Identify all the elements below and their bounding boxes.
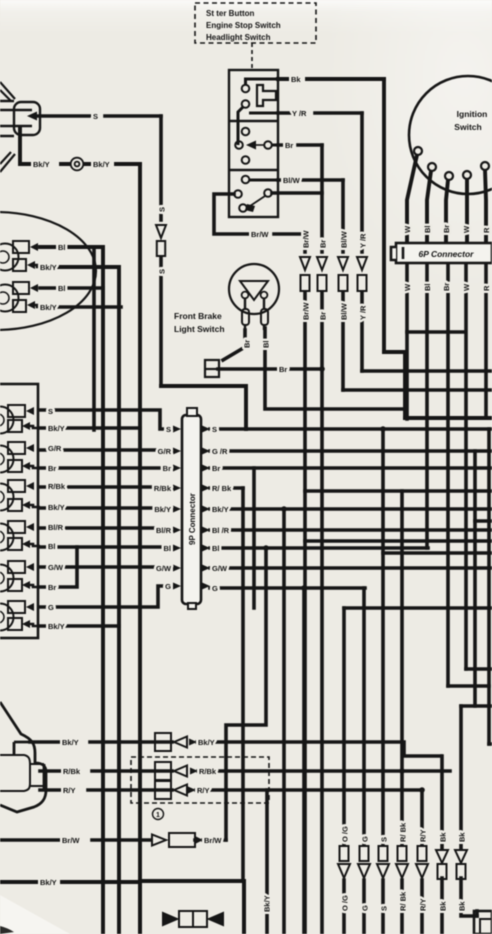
svg-text:G: G: [361, 836, 370, 842]
wire switch Br out: [278, 143, 322, 147]
junction dot G row: [301, 585, 307, 591]
bottom bullet Bk x463 (flipped): [455, 850, 467, 879]
wire Br bus x254 jog: [252, 468, 256, 608]
wire bottom box right edge: [242, 881, 246, 934]
wire Y/R bus x362: [360, 113, 364, 371]
bottom bullet G x364: [358, 846, 370, 878]
wire bottom box left edge: [138, 881, 142, 934]
svg-text:R/ Bk: R/ Bk: [212, 484, 232, 493]
wire G bus x304: [302, 588, 306, 934]
wire row y541 right: [305, 539, 492, 543]
meter bulb 2: [0, 442, 40, 473]
wire Br row right: [210, 466, 492, 470]
svg-text:Y /R: Y /R: [359, 305, 368, 320]
wire S headlight horizontal: [33, 114, 161, 118]
wire bottom right box feed: [475, 911, 479, 916]
svg-text:Bk/Y: Bk/Y: [33, 160, 50, 169]
wire switch Br/W out left: [214, 194, 305, 234]
svg-text:Br: Br: [212, 464, 220, 473]
svg-text:W: W: [462, 283, 471, 291]
svg-text:G/R: G/R: [158, 447, 172, 456]
wire S headlight vertical bus: [159, 116, 163, 386]
circled 1: [153, 809, 164, 820]
wire O/G bus x344: [342, 608, 346, 934]
svg-text:R/ Bk: R/ Bk: [399, 891, 408, 911]
switch section2 arrow: [246, 141, 256, 150]
switch terminals section3: [234, 176, 278, 212]
wire FBLS box Br out: [218, 367, 322, 371]
svg-text:Bk/Y: Bk/Y: [48, 503, 65, 512]
bottom bullet R/Y x422: [416, 846, 428, 878]
tail lamp wire stubs: [14, 742, 48, 790]
tail lamp outline: [0, 702, 46, 812]
bullet Bl/W x343: [338, 257, 348, 291]
tail lamp bulb: [0, 755, 44, 791]
svg-text:Br/W: Br/W: [302, 302, 311, 320]
svg-text:G: G: [212, 584, 218, 593]
rotated labels bullets bottom: [302, 302, 368, 320]
svg-text:Bk/Y: Bk/Y: [40, 263, 57, 272]
svg-text:R/Y: R/Y: [197, 786, 210, 795]
wire 6P R down: [484, 263, 488, 418]
svg-text:Bk/Y: Bk/Y: [93, 160, 110, 169]
svg-text:Headlight Switch: Headlight Switch: [206, 33, 271, 42]
9P pins right arrows: [202, 426, 210, 590]
lamp row connector R/Bk: [155, 762, 187, 780]
wire row y669 to edge: [466, 667, 492, 671]
svg-text:Bl: Bl: [262, 341, 271, 349]
svg-text:Front Brake: Front Brake: [174, 311, 222, 321]
wire Bk bus x443: [440, 756, 444, 934]
meter box: [0, 384, 38, 638]
bullet Y/R x362: [357, 257, 367, 291]
wire 6P Br down: [446, 263, 450, 686]
wire Bk bus x384: [382, 79, 386, 352]
wire row y706 to edge: [461, 704, 492, 708]
lamp row connector Bk/Y (rect + triangle): [155, 733, 187, 751]
svg-text:Bk: Bk: [458, 901, 467, 911]
svg-text:R/ Bk: R/ Bk: [399, 822, 408, 842]
wire Bl row right: [210, 546, 428, 550]
svg-text:Bl/W: Bl/W: [340, 302, 349, 320]
svg-text:Br: Br: [279, 365, 287, 374]
wire meter G/R row: [40, 448, 166, 452]
bottom box inner connector: [163, 911, 223, 927]
svg-text:Engine Stop Switch: Engine Stop Switch: [206, 21, 281, 30]
svg-text:R/Bk: R/Bk: [48, 482, 66, 491]
svg-text:W: W: [462, 225, 471, 233]
junction dot R/Y bottom: [419, 787, 425, 793]
wire S bullet bus x383: [381, 429, 385, 934]
svg-text:G/W: G/W: [212, 564, 228, 573]
ring connector (Bk/Y): [71, 158, 84, 171]
svg-text:Br: Br: [319, 240, 328, 248]
svg-text:Bl: Bl: [164, 544, 172, 553]
rotated labels below 6P: [403, 283, 491, 291]
wire Bk bus x405: [403, 352, 407, 418]
svg-text:Br: Br: [48, 464, 56, 473]
signal bulb 1: [0, 241, 40, 271]
wire Bl/W row y390 right: [343, 388, 492, 392]
svg-text:Y /R: Y /R: [292, 109, 307, 118]
headlight bulb body: [0, 101, 40, 136]
wire R/Bk row right short: [210, 486, 243, 490]
svg-text:6P Connector: 6P Connector: [419, 249, 475, 259]
arrow Br/W row: [196, 837, 203, 844]
wire meter Bk/Y row3: [40, 624, 119, 628]
wire G/R bus x475: [473, 451, 477, 706]
junction dot S row: [380, 426, 386, 432]
svg-text:Bk/Y: Bk/Y: [154, 505, 171, 514]
rotated labels bottom bullets top: [341, 822, 467, 842]
bottom left corner mark: [0, 926, 14, 934]
wire Br/W bus x305: [303, 234, 307, 934]
wire Bk/Y row right: [210, 507, 492, 511]
wire Y/R row y371 right: [362, 369, 492, 373]
svg-text:Bk: Bk: [439, 901, 448, 911]
front brake light switch circle: [229, 264, 279, 314]
svg-text:Switch: Switch: [454, 122, 481, 132]
svg-text:O /G: O /G: [341, 895, 350, 911]
svg-text:G: G: [165, 582, 171, 591]
wire meter Bk/Y row2: [40, 506, 166, 510]
svg-text:W: W: [403, 225, 412, 233]
svg-text:R/Y: R/Y: [63, 786, 76, 795]
svg-text:Bk: Bk: [458, 832, 467, 842]
9P connector body: [182, 408, 201, 609]
wire Bk bus x489: [487, 429, 491, 744]
ignition switch circle: [409, 76, 492, 194]
tail lamp row labels: [40, 738, 222, 887]
wire FBLS Bl down: [265, 328, 405, 409]
svg-text:O /G: O /G: [341, 826, 350, 842]
switch section1 internal wire: [238, 107, 243, 145]
svg-text:Bl: Bl: [423, 284, 432, 292]
svg-text:Ignition: Ignition: [457, 109, 488, 119]
arrow R/Bk row: [190, 768, 198, 775]
junction dot R/Bk bottom: [399, 768, 405, 774]
junction dot Br row: [319, 366, 325, 372]
svg-text:S: S: [93, 112, 98, 121]
bullet Br/W x305: [300, 257, 310, 291]
wire Bk row y352: [384, 350, 405, 354]
diode dashed box: [131, 757, 269, 803]
svg-text:R/Bk: R/Bk: [63, 767, 81, 776]
rotated labels above 6P: [403, 225, 491, 233]
headlight housing outline: [0, 82, 15, 172]
wire R/Bk bus x243: [241, 488, 245, 881]
wire G/R row right: [210, 449, 492, 453]
svg-text:Bl: Bl: [423, 226, 432, 234]
wire meter Bk/Y row1: [40, 426, 140, 430]
wire R/Y bus x422: [420, 790, 424, 934]
wire Bk/Y bus x284: [282, 509, 286, 934]
bottom right box: [474, 911, 492, 934]
wire row y521 right: [475, 519, 492, 523]
bullet Br x322: [317, 257, 327, 291]
svg-text:R: R: [482, 227, 491, 233]
arrow Bk/Y row: [189, 739, 197, 746]
wire Bl lamp2 row: [40, 286, 103, 290]
wire meter Bl/R row: [40, 526, 166, 530]
svg-text:St ter Button: St ter Button: [206, 9, 255, 18]
svg-text:R: R: [482, 285, 491, 291]
housing ellipse (turn signals): [0, 212, 96, 330]
wire meter G row jog to 9P: [40, 586, 166, 607]
svg-text:S: S: [380, 906, 389, 911]
wire FBLS Br diagonal: [223, 330, 245, 360]
svg-text:Bk/Y: Bk/Y: [212, 505, 229, 514]
wire Bk/Y bus x119: [40, 267, 119, 934]
6P connector bar: [391, 243, 492, 263]
meter bulb 5: [0, 561, 40, 592]
svg-text:Bk/Y: Bk/Y: [62, 738, 79, 747]
wire G bus x364: [362, 588, 366, 934]
bottom bullet S x383: [377, 846, 389, 878]
svg-text:G /R: G /R: [212, 447, 228, 456]
wire Bk bus x463: [461, 706, 477, 916]
arrow R/Y row: [188, 787, 196, 794]
wire Bl bus x103: [40, 247, 103, 934]
svg-text:Bk: Bk: [439, 832, 448, 842]
wire Bl link x94: [92, 247, 96, 430]
wire lamp R/Y row y790: [40, 788, 422, 792]
svg-text:Bk/Y: Bk/Y: [48, 424, 65, 433]
svg-text:Bl/W: Bl/W: [340, 230, 349, 248]
wire switch Y/R out: [278, 111, 362, 115]
svg-text:Bl: Bl: [58, 243, 66, 252]
wire row y491 from Br/W bus: [305, 489, 492, 493]
svg-text:Bl: Bl: [212, 544, 220, 553]
bottom bullet Bk x443 (flipped): [436, 850, 448, 879]
meter bulb 6: [0, 601, 40, 631]
svg-text:S: S: [158, 207, 167, 212]
svg-text:R/Y: R/Y: [419, 829, 428, 842]
wire Bk/Y lamp2 row: [40, 305, 121, 309]
wire Bl bus x266: [226, 548, 266, 840]
wire Bl/R row right: [210, 528, 492, 532]
svg-text:W: W: [403, 283, 412, 291]
9P left labels: [154, 425, 172, 591]
svg-text:Bk: Bk: [291, 75, 301, 84]
svg-text:S: S: [212, 425, 217, 434]
svg-text:G/W: G/W: [156, 564, 172, 573]
svg-text:Br/W: Br/W: [62, 836, 80, 845]
svg-text:Bl/W: Bl/W: [283, 176, 301, 185]
ignition terminals: [414, 147, 489, 180]
svg-text:S: S: [380, 837, 389, 842]
wire G row right: [210, 586, 365, 590]
meter bulb 1: [0, 405, 40, 434]
svg-text:Br/W: Br/W: [204, 836, 222, 845]
svg-text:Bl/R: Bl/R: [156, 526, 172, 535]
rotated labels bottom bullets below: [341, 891, 467, 911]
wire switch Bk out: [278, 77, 384, 81]
svg-text:Bl /R: Bl /R: [212, 526, 230, 535]
switch terminals section1: [242, 79, 278, 108]
callout dashed box: [195, 3, 316, 68]
svg-text:Bl: Bl: [48, 542, 56, 551]
S inline bullet on x161: [156, 225, 166, 256]
wire Bl/W bus x343: [341, 180, 345, 390]
svg-text:Bk/Y: Bk/Y: [40, 878, 57, 887]
wire lamp Bk/Y row y742: [30, 742, 441, 756]
svg-text:Br: Br: [319, 312, 328, 320]
wire row y553 right: [383, 551, 492, 555]
svg-text:S: S: [158, 269, 167, 274]
svg-text:1: 1: [156, 812, 160, 819]
FBLS terminal stubs: [242, 299, 268, 330]
wire S row right of 9P: [210, 427, 492, 431]
9P pins left arrows: [173, 426, 181, 590]
wire meter S row to 9P: [40, 410, 166, 429]
wire switch Bl/W out: [278, 178, 343, 182]
wire 6P W1 down: [405, 263, 409, 419]
wire 6P W2 down join: [407, 263, 466, 669]
svg-text:G/R: G/R: [48, 444, 62, 453]
bottom bullet O/G x344: [338, 846, 350, 878]
svg-text:9P Connector: 9P Connector: [188, 493, 197, 545]
svg-text:R/Bk: R/Bk: [154, 484, 172, 493]
wire meter Br row: [40, 466, 166, 470]
signal bulb 2: [0, 282, 40, 312]
svg-text:R/Y: R/Y: [419, 898, 428, 911]
wire bottom box top: [140, 879, 244, 883]
svg-text:Br: Br: [442, 283, 451, 291]
wire O/G row from edge: [344, 606, 492, 610]
svg-text:Bk/Y: Bk/Y: [198, 738, 215, 747]
meter bulb 3: [0, 480, 40, 511]
headlight S arrow: [27, 112, 37, 121]
svg-text:Bk/Y: Bk/Y: [263, 895, 272, 912]
switch terminals section2: [235, 113, 278, 164]
junction dot Bk/Y row: [281, 506, 287, 512]
svg-text:Br: Br: [163, 464, 171, 473]
FBLS inner terminals: [242, 292, 268, 299]
svg-text:S: S: [166, 425, 171, 434]
ignition terminal wires: [407, 155, 486, 244]
svg-text:Y /R: Y /R: [359, 233, 368, 248]
switch section3 contact blob: [245, 204, 255, 212]
svg-text:S: S: [48, 407, 53, 416]
wire meter Br row2 jog: [40, 547, 77, 587]
svg-text:Br: Br: [48, 583, 56, 592]
wire Bk/Y bottom bus x267: [265, 790, 269, 934]
wire G/W row right: [210, 566, 492, 570]
svg-text:Br: Br: [243, 340, 252, 348]
svg-text:G: G: [361, 905, 370, 911]
wire meter Bl row: [40, 545, 166, 549]
junction dot Bl row: [263, 545, 269, 551]
wire meter G/W row: [40, 565, 166, 569]
svg-text:G: G: [48, 603, 54, 612]
svg-text:Bl/R: Bl/R: [48, 523, 64, 532]
wire Bk/Y bus x140: [138, 164, 142, 881]
svg-text:Br/W: Br/W: [251, 230, 269, 239]
svg-text:Light Switch: Light Switch: [174, 324, 225, 334]
meter row labels: [48, 407, 66, 631]
rotated labels bullets top: [302, 230, 368, 248]
svg-text:Br: Br: [285, 141, 293, 150]
svg-text:Br/W: Br/W: [302, 230, 311, 248]
wire S jog y386 to x246: [161, 386, 246, 429]
svg-text:Bk/Y: Bk/Y: [40, 303, 57, 312]
Br/W row connector (triangle + rect): [152, 833, 195, 847]
switch box (starter/stop/headlight): [229, 70, 278, 217]
FBLS triangle: [240, 281, 268, 300]
wire Br bus x322: [320, 145, 324, 934]
svg-text:Bl: Bl: [58, 284, 66, 293]
svg-text:Br: Br: [442, 225, 451, 233]
lamp row connector R/Y: [155, 781, 187, 799]
wire switch c8 to Br bus: [272, 191, 322, 195]
svg-text:Bk/Y: Bk/Y: [48, 622, 65, 631]
svg-text:G/W: G/W: [48, 563, 64, 572]
wire meter R/Bk row: [40, 485, 166, 489]
FBLS junction box: [205, 360, 219, 377]
wire R/Bk bus x402: [400, 491, 404, 934]
9P right labels: [212, 425, 232, 593]
wire Bk/Y bottom row y882: [0, 880, 140, 884]
bottom bullet R/Bk x402: [396, 846, 408, 878]
wire headlight to ring: [20, 128, 140, 164]
wire row y686 to edge: [448, 686, 492, 744]
wire 6P Bl down: [425, 263, 429, 548]
wire row y418 right: [405, 416, 492, 420]
wire lamp R/Bk row y771: [40, 769, 450, 773]
wire Br/W row y840: [0, 838, 226, 842]
svg-text:R/Bk: R/Bk: [199, 767, 217, 776]
meter bulb 4: [0, 521, 40, 551]
